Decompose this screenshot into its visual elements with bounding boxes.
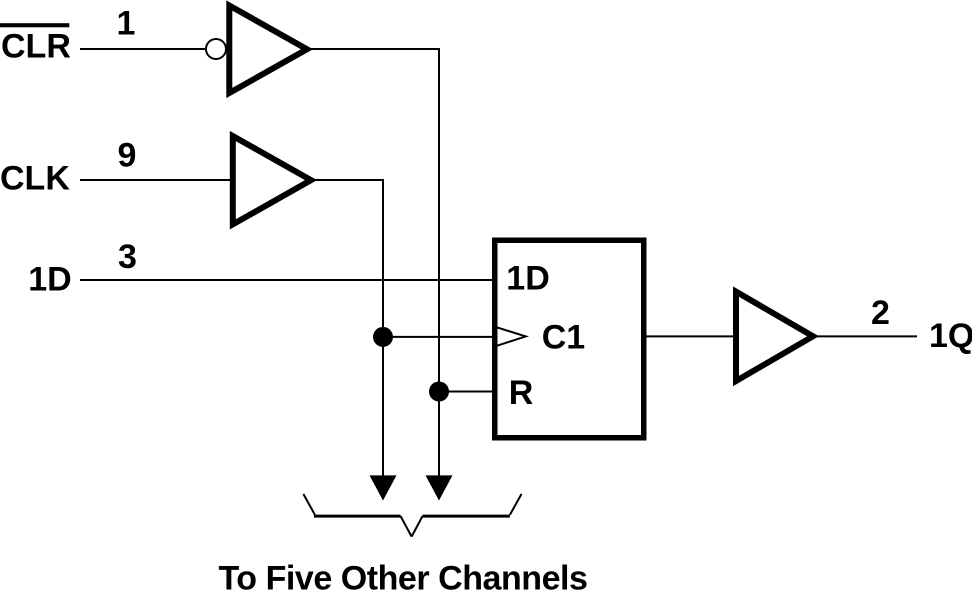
- svg-text:CLK: CLK: [0, 160, 70, 198]
- svg-text:CLR: CLR: [1, 28, 71, 66]
- svg-text:1D: 1D: [28, 261, 71, 299]
- svg-text:1D: 1D: [506, 260, 549, 298]
- svg-text:3: 3: [118, 238, 137, 276]
- svg-text:C1: C1: [542, 318, 585, 356]
- svg-text:9: 9: [118, 137, 137, 175]
- svg-text:1Q: 1Q: [929, 317, 972, 355]
- svg-text:To Five Other Channels: To Five Other Channels: [219, 560, 588, 592]
- svg-text:R: R: [509, 374, 534, 412]
- svg-text:2: 2: [871, 294, 890, 332]
- svg-text:1: 1: [117, 5, 136, 43]
